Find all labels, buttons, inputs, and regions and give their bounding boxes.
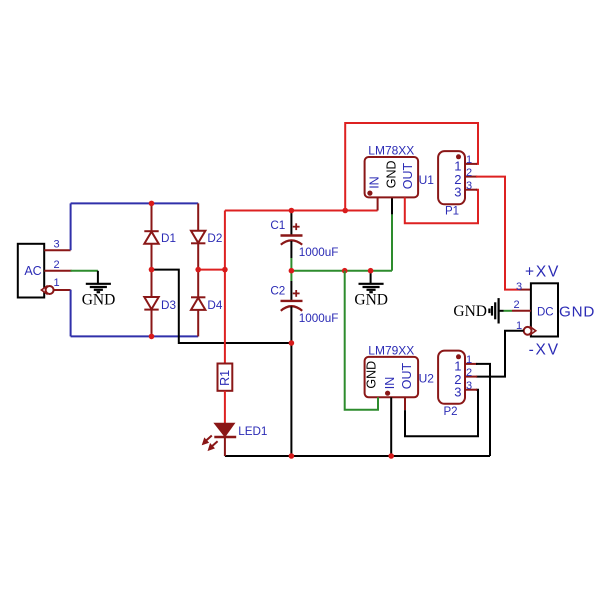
svg-text:OUT: OUT [400,362,414,389]
svg-text:AC: AC [24,264,41,278]
svg-text:GND: GND [82,292,116,309]
svg-text:D3: D3 [161,299,176,312]
capacitor C2 [270,271,338,456]
wire red R1 to LED [224,391,226,424]
diode D1 [144,203,176,269]
svg-text:D1: D1 [161,232,176,245]
wire blue bottom rail [71,335,199,337]
node D1/D3 [149,267,155,273]
U2 OUT pin lead [404,397,406,410]
svg-text:LED1: LED1 [238,425,267,438]
svg-text:D2: D2 [207,232,222,245]
diode D2 [191,203,222,269]
connector P1 [438,151,477,218]
wire green U2 GND to mid rail [345,271,378,410]
ground symbol (middle) [354,271,388,309]
svg-text:2: 2 [466,367,472,379]
U1 OUT pin to P1 pin3 (red) [405,190,478,224]
svg-text:2: 2 [54,259,60,271]
DC pin1 open circle [524,327,536,335]
svg-text:IN: IN [368,176,382,189]
node bottom rail / D3 [149,334,155,340]
svg-text:2: 2 [466,167,472,179]
U1 IN pin lead [377,197,379,210]
capacitor C1 [270,213,338,259]
node top rail / C1 [289,208,295,214]
svg-text:GND: GND [453,303,487,320]
ground symbol (DC side, rotated) [453,298,498,323]
wire red U1 riser to top path [345,123,478,211]
svg-text:1: 1 [466,154,472,166]
svg-text:IN: IN [383,377,397,390]
wire black U2 OUT to P2 pin3 [405,390,478,437]
svg-text:U2: U2 [419,371,435,385]
wire green C1 to mid rail [290,258,292,271]
wire black bottom rail [225,455,490,457]
svg-text:1000uF: 1000uF [299,246,339,259]
DC pin2 stub [512,310,531,312]
node mid rail / C1 C2 [289,268,295,274]
wire green mid rail riser to U1 GND [391,214,393,270]
svg-text:2: 2 [514,299,520,311]
svg-text:3: 3 [516,281,522,293]
svg-text:-XV: -XV [529,341,560,358]
wire black P2 pin1 to bottom rail [476,364,490,456]
node +V rail [222,267,228,273]
connector AC [18,244,44,298]
svg-text:3: 3 [454,385,461,400]
svg-text:GND: GND [384,160,398,188]
svg-text:C2: C2 [270,285,285,298]
diode D3 [144,270,176,337]
svg-text:GND: GND [354,292,388,309]
node bottom rail / C2 lead [289,453,295,459]
node bottom rail / U2 IN [388,453,394,459]
wire blue top rail [71,202,199,204]
wire blue riser AC1 to bridge bottom [70,290,72,337]
svg-text:GND: GND [559,303,595,320]
wire green mid rail [291,270,392,272]
regulator U1 LM78XX [365,143,435,197]
regulator U2 LM79XX [365,343,435,397]
svg-text:3: 3 [54,239,60,251]
wire black DC pin1 to P2 pin2 [476,331,524,377]
svg-text:3: 3 [466,380,472,392]
node top rail / D1 [149,201,155,207]
svg-text:P2: P2 [443,406,457,418]
svg-text:+XV: +XV [525,263,560,280]
wire blue riser AC3 to bridge top [70,203,72,250]
svg-text:3: 3 [466,180,472,192]
svg-text:1: 1 [466,354,472,366]
connector P2 [438,351,477,418]
svg-text:GND: GND [365,361,379,389]
node mid rail / ground [368,268,374,274]
svg-text:OUT: OUT [401,162,415,189]
svg-text:LM79XX: LM79XX [368,343,414,357]
DC pin3 stub [520,289,531,291]
svg-text:R1: R1 [218,370,232,386]
svg-text:3: 3 [454,185,461,200]
LED LED1 [203,424,268,457]
AC pin 1 [41,277,70,294]
svg-text:U1: U1 [419,173,435,187]
svg-text:1000uF: 1000uF [299,312,339,325]
svg-text:D4: D4 [207,299,222,312]
node D2/D4 [195,267,201,273]
AC pin 3 [44,239,70,251]
wire red top rail [225,210,378,212]
node -V rail / C2 lead [289,340,295,346]
svg-text:1: 1 [54,277,60,289]
wire +V red vertical [224,211,226,364]
wire -V black from D1/D3 node [152,270,292,343]
resistor R1 [218,364,233,391]
diode D4 [191,270,223,337]
connector DC [514,281,559,336]
wire P1 pin2 to DC pin3 (red) [476,177,520,290]
svg-text:P1: P1 [445,206,459,218]
node mid rail / U2 GND riser [342,268,348,274]
svg-text:LM78XX: LM78XX [368,143,414,157]
wire +V red stub from D2/D4 node [198,269,225,271]
ground symbol (AC side) [82,271,116,309]
node top rail / U1 riser [342,208,348,214]
wire AC2 to ground (green) [71,270,98,272]
AC pin 2 [44,259,71,271]
U2 IN pin lead (black) [390,397,392,456]
svg-text:DC: DC [537,306,554,318]
wire green DC pin2 to ground [504,310,513,312]
svg-text:C1: C1 [270,219,285,232]
